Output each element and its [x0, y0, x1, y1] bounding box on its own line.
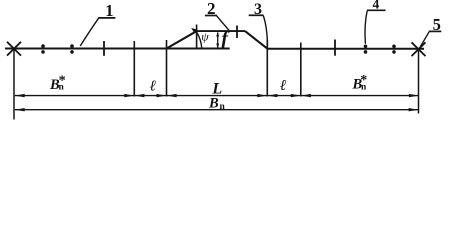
svg-text:5: 5 [433, 15, 441, 34]
dot pair x=365.5 [364, 45, 368, 49]
underline label 2 [205, 15, 217, 17]
node: extension line x=300.8 [300, 43, 302, 97]
row1 double arrowheads at x=166.5 [157, 94, 167, 97]
node: peak vertical extension [196, 25, 198, 49]
svg-text:*: * [59, 74, 66, 89]
leader line label 4 [365, 11, 367, 44]
node: extension line x=166.5 [166, 40, 168, 97]
wire: crown top line [197, 30, 246, 32]
svg-text:4: 4 [373, 0, 380, 12]
leader line label 5 [420, 32, 429, 47]
svg-text:ψ: ψ [201, 29, 209, 43]
row1 double arrowheads at x=134 [124, 94, 134, 97]
f dim arrowhead top [216, 32, 219, 37]
node A: left end X mark with tail [7, 42, 21, 120]
svg-text:n: n [220, 102, 226, 112]
svg-text:ℓ: ℓ [150, 79, 156, 95]
row1 arrowheads at x=15 tip-left [15, 94, 25, 97]
underline label 4 [367, 9, 386, 11]
svg-text:2: 2 [207, 0, 216, 18]
arrowhead psi arc [191, 28, 197, 34]
underline label 3 [249, 14, 264, 16]
node: extension line x=267.3 [266, 40, 268, 97]
leader line label 1 [80, 18, 98, 46]
f dimension line [217, 33, 219, 48]
dimension row 2 line [15, 109, 419, 111]
svg-text:B: B [208, 96, 219, 112]
svg-text:*: * [360, 73, 367, 88]
row1 double arrowheads at x=300.8 [291, 94, 301, 97]
dot pair x=72 [70, 44, 74, 48]
f dim arrowhead bottom [216, 44, 219, 49]
dot pair x=43 [41, 44, 45, 48]
wire: baseline right segment [267, 48, 424, 50]
wire: tick on baseline x=335 [334, 40, 336, 56]
row1 double arrowheads at x=267.3 [257, 94, 267, 97]
dimension row 1 line [15, 95, 419, 97]
leader line label 3 [263, 16, 267, 46]
psi angle arc [196, 31, 202, 49]
node B: right end X mark with tail [412, 42, 426, 113]
row2 arrowhead left [15, 108, 25, 111]
svg-text:1: 1 [105, 1, 113, 20]
wire: tick on baseline x=104 [103, 41, 105, 56]
underline label 1 [98, 17, 115, 19]
node: crown right slope [245, 31, 268, 49]
svg-text:ℓ: ℓ [280, 78, 286, 94]
row2 arrowhead right [409, 108, 419, 111]
row1 arrowhead at x=419 tip-right [409, 94, 419, 97]
dot pair x=394 [392, 45, 396, 49]
leader line label 2 [217, 16, 229, 30]
wire: baseline left segment (ground line) [5, 48, 230, 50]
underline label 5 [429, 30, 442, 32]
wire: tick on crown top x=237 [236, 26, 238, 39]
svg-text:3: 3 [254, 1, 262, 18]
node: extension line x=134 [133, 41, 135, 97]
node: crown left slope [167, 31, 197, 48]
